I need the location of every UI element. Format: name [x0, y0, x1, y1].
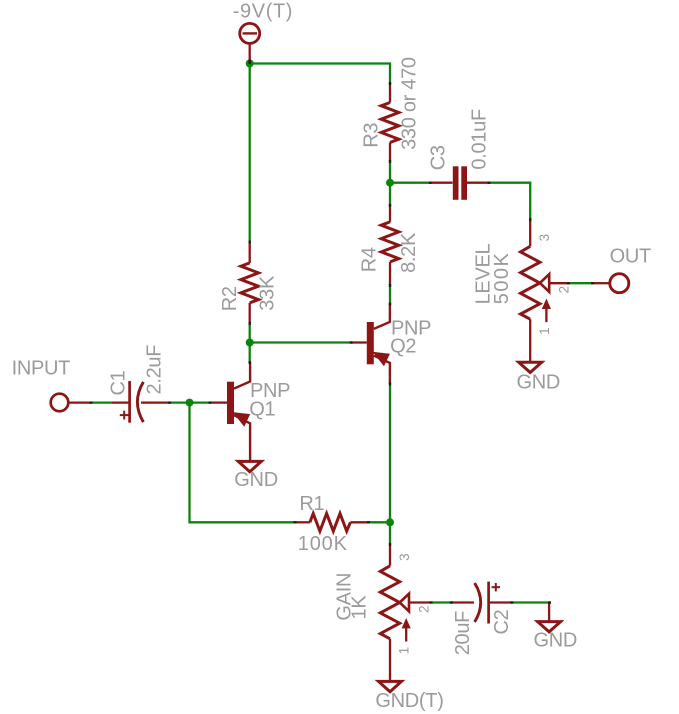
- svg-text:3: 3: [397, 553, 412, 561]
- svg-text:3: 3: [537, 234, 552, 242]
- svg-text:GND: GND: [234, 469, 278, 491]
- svg-text:1K: 1K: [349, 595, 371, 620]
- svg-text:C2: C2: [491, 609, 513, 634]
- svg-text:2: 2: [417, 605, 432, 613]
- svg-text:R1: R1: [299, 493, 324, 515]
- svg-text:100K: 100K: [298, 533, 348, 555]
- svg-text:1: 1: [397, 647, 412, 655]
- svg-text:Q2: Q2: [390, 336, 416, 358]
- svg-text:2: 2: [557, 286, 572, 294]
- svg-text:33K: 33K: [257, 275, 279, 311]
- svg-text:INPUT: INPUT: [12, 358, 71, 380]
- svg-text:C3: C3: [428, 145, 450, 170]
- svg-text:Q1: Q1: [249, 398, 275, 420]
- svg-text:8.2K: 8.2K: [398, 232, 420, 273]
- svg-text:C1: C1: [108, 370, 130, 395]
- svg-text:-9V(T): -9V(T): [233, 1, 293, 23]
- svg-text:0.01uF: 0.01uF: [469, 109, 491, 170]
- svg-text:OUT: OUT: [610, 246, 651, 268]
- svg-text:330 or 470: 330 or 470: [399, 57, 421, 150]
- svg-text:500K: 500K: [491, 252, 513, 305]
- svg-text:GND: GND: [517, 372, 561, 394]
- svg-text:1: 1: [537, 327, 552, 335]
- svg-text:R4: R4: [359, 247, 381, 272]
- svg-text:GND(T): GND(T): [375, 690, 443, 712]
- svg-text:R2: R2: [219, 286, 241, 311]
- svg-text:2.2uF: 2.2uF: [144, 345, 166, 395]
- svg-text:GND: GND: [534, 630, 578, 652]
- svg-text:20uF: 20uF: [452, 611, 474, 655]
- svg-text:R3: R3: [360, 123, 382, 148]
